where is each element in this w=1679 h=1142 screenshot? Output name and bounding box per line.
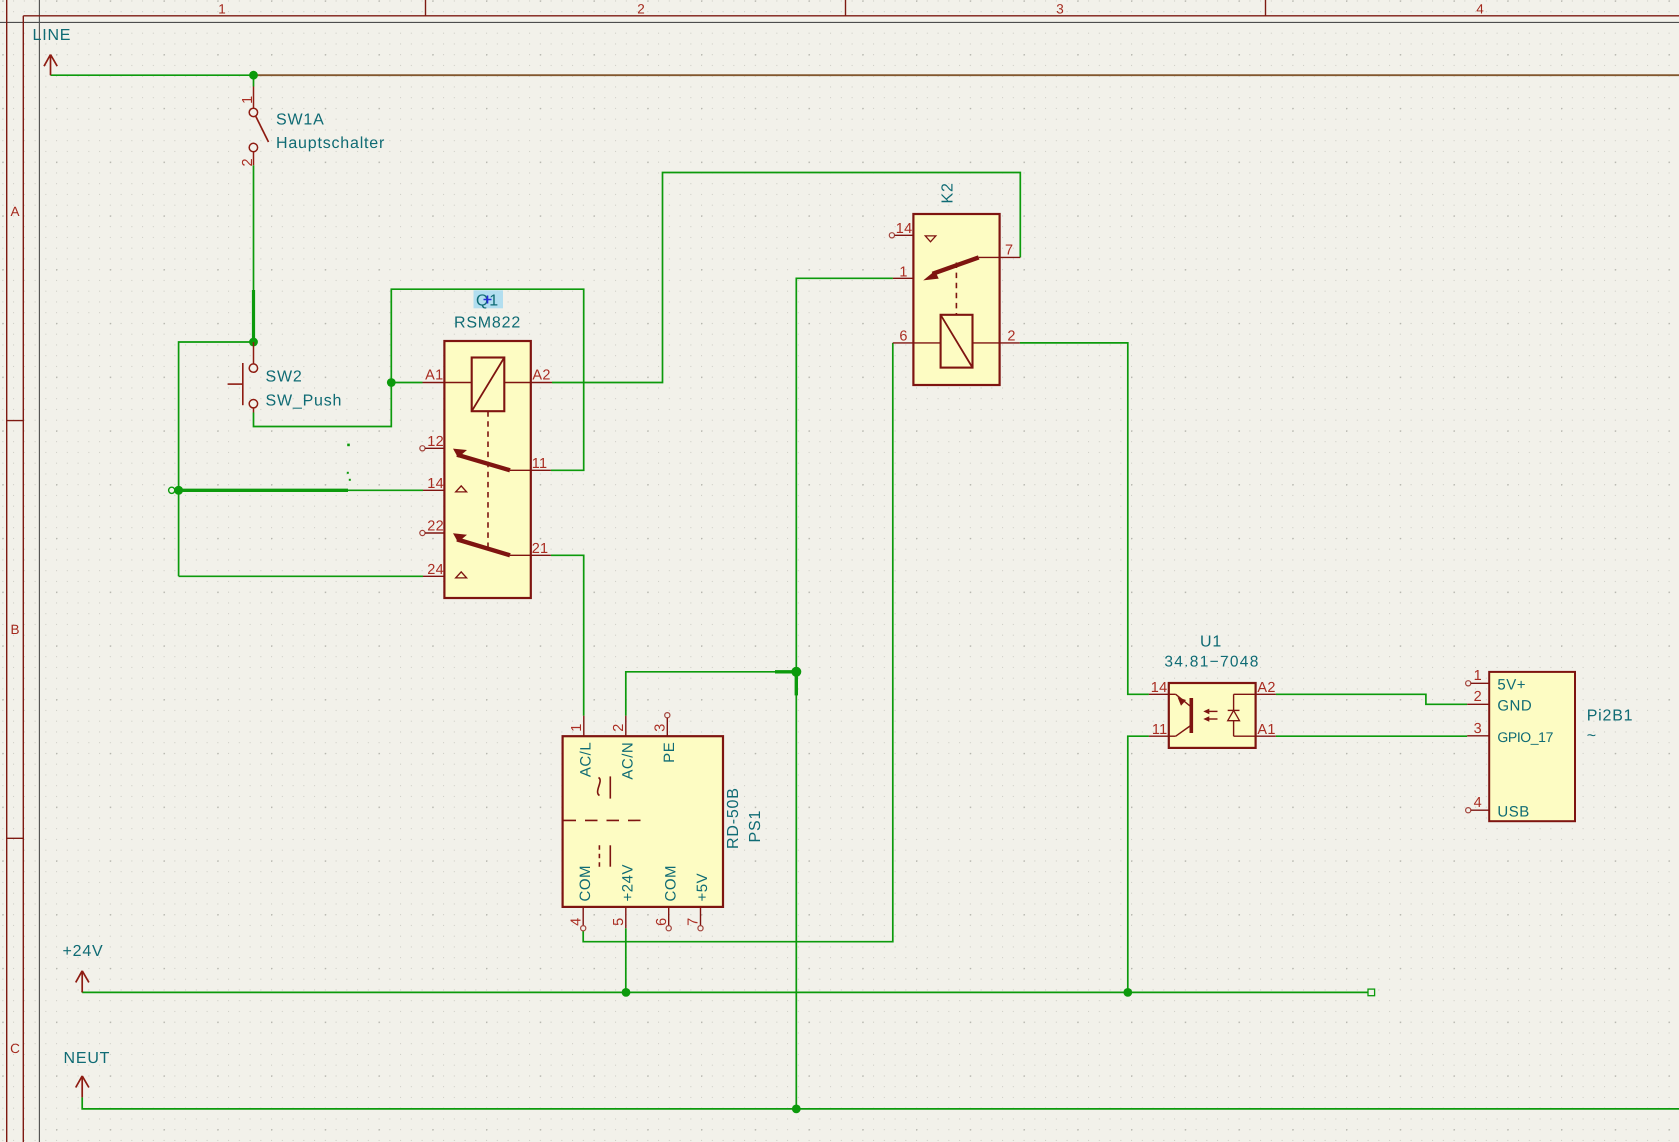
pin 5 PS1 bbox=[625, 907, 627, 928]
dashed link K2 bbox=[955, 263, 957, 315]
wire junction left and down left rail bbox=[179, 342, 254, 576]
svg-text:A1: A1 bbox=[1257, 722, 1275, 738]
svg-text:14: 14 bbox=[896, 221, 913, 237]
svg-text:U1: U1 bbox=[1200, 634, 1222, 651]
wire LINE net from power arrow to junction bbox=[51, 74, 254, 76]
svg-text:3: 3 bbox=[1474, 721, 1482, 737]
column label 1 bbox=[218, 2, 226, 17]
pin 4 PS1 bbox=[582, 907, 584, 926]
svg-text:+5V: +5V bbox=[694, 873, 711, 902]
switch SW2 SW_Push bbox=[228, 342, 343, 413]
junction K1 net at x796 bbox=[791, 667, 801, 677]
pin 6 K2 bbox=[893, 342, 914, 344]
pin 2 PS1 bbox=[625, 716, 627, 737]
svg-text:12: 12 bbox=[427, 434, 444, 450]
column label 2 bbox=[637, 2, 645, 17]
wire to Q1 pin 24 bbox=[179, 575, 423, 577]
wire PS1 pin 2 up to junction bbox=[626, 672, 797, 716]
pin 3 Pi2B1 bbox=[1467, 735, 1489, 737]
pin 14 bbox=[423, 489, 444, 491]
pin 14 K2 bbox=[889, 233, 894, 238]
svg-text:7: 7 bbox=[686, 918, 702, 926]
svg-text:PS1: PS1 bbox=[747, 810, 764, 843]
row label B bbox=[10, 622, 19, 637]
wire junction to A1 pin bbox=[391, 382, 422, 384]
optocoupler U1 34.81-7048 bbox=[1149, 634, 1276, 748]
row label C bbox=[10, 1041, 20, 1056]
power port NEUT bbox=[64, 1050, 111, 1097]
pin 1 K2 bbox=[893, 277, 914, 279]
DC symbol PS1 bbox=[609, 845, 611, 866]
power port LINE bbox=[33, 27, 72, 75]
wire NEUT rail bbox=[82, 1097, 1679, 1109]
power port +24V bbox=[63, 943, 104, 992]
column tick 3|4 bbox=[1265, 0, 1267, 16]
svg-text:RD-50B: RD-50B bbox=[725, 787, 742, 849]
svg-text:4: 4 bbox=[1474, 795, 1482, 811]
border frame outer bbox=[6, 0, 8, 1142]
svg-text:5V+: 5V+ bbox=[1497, 677, 1526, 694]
svg-text:GPIO_17: GPIO_17 bbox=[1497, 729, 1553, 745]
wire Q1 A2 up over to K2 pin 7 bbox=[552, 173, 1020, 383]
svg-text:4: 4 bbox=[1476, 2, 1484, 17]
connector Pi2B1 bbox=[1466, 668, 1634, 821]
row label A bbox=[10, 204, 19, 219]
wire U1 A2 to Pi2B1 GND bbox=[1276, 694, 1467, 704]
coil Q1 bbox=[472, 358, 505, 412]
pin 14 U1 bbox=[1149, 693, 1169, 695]
junction +24V at PS1 pin 5 bbox=[622, 988, 631, 997]
pin 1 PS1 bbox=[583, 716, 585, 737]
wire Q1 top bracket A1 junction to pin 11 bbox=[391, 289, 583, 470]
svg-text:1: 1 bbox=[1474, 668, 1482, 684]
pin A1 U1 bbox=[1256, 735, 1276, 737]
column tick 2|3 bbox=[845, 0, 847, 16]
column label 4 bbox=[1476, 2, 1484, 17]
junction SW2 top bbox=[249, 338, 258, 347]
svg-text:2: 2 bbox=[1007, 329, 1015, 345]
svg-text:LINE: LINE bbox=[33, 27, 72, 44]
power supply PS1 RD-50B bbox=[563, 713, 764, 931]
svg-text:14: 14 bbox=[1151, 680, 1168, 696]
relay Q1 RSM822 bbox=[420, 290, 552, 598]
svg-text:A: A bbox=[10, 204, 19, 219]
svg-text:B: B bbox=[10, 622, 19, 637]
wire K2 pin 1 left and down to NEUT bbox=[775, 278, 893, 1109]
sheet origin axis horizontal bbox=[0, 21, 1679, 23]
svg-text:+24V: +24V bbox=[63, 943, 104, 960]
svg-text:AC/N: AC/N bbox=[620, 742, 637, 780]
svg-text:A1: A1 bbox=[425, 367, 443, 383]
wire K2 pin 6 down around to PS1 pin 4 bbox=[583, 343, 893, 942]
column tick 1|2 bbox=[425, 0, 427, 16]
svg-text:3: 3 bbox=[1056, 2, 1064, 17]
svg-text:6: 6 bbox=[899, 329, 907, 345]
pin 22 bbox=[420, 530, 425, 535]
svg-text:21: 21 bbox=[532, 541, 549, 557]
svg-text:2: 2 bbox=[1474, 689, 1482, 705]
row tick A|B bbox=[7, 420, 24, 422]
pin A1 bbox=[423, 382, 445, 384]
svg-text:SW_Push: SW_Push bbox=[266, 393, 343, 410]
contact lever 22-21 bbox=[453, 533, 467, 542]
svg-text:SW1A: SW1A bbox=[276, 112, 325, 129]
svg-text:A2: A2 bbox=[1257, 680, 1275, 696]
light arrows U1 bbox=[1207, 710, 1218, 712]
svg-text:5: 5 bbox=[611, 918, 627, 926]
svg-text:2: 2 bbox=[637, 2, 645, 17]
svg-text:6: 6 bbox=[654, 918, 670, 926]
svg-text:USB: USB bbox=[1497, 804, 1529, 821]
diode U1 bbox=[1233, 694, 1235, 710]
pin 24 bbox=[423, 575, 444, 577]
svg-text:2: 2 bbox=[240, 158, 256, 166]
pin 2 Pi2B1 bbox=[1467, 703, 1489, 705]
wire K2 pin 2 to U1 pin 14 bbox=[1020, 343, 1149, 694]
svg-text:SW2: SW2 bbox=[266, 369, 303, 386]
wire LINE net brown continuation to right edge bbox=[254, 74, 1679, 76]
pin A2 U1 bbox=[1256, 693, 1276, 695]
divider dashes PS1 bbox=[564, 819, 646, 821]
wire SW1A pin1 to switch bbox=[253, 75, 255, 86]
svg-text:Hauptschalter: Hauptschalter bbox=[276, 135, 385, 152]
svg-text:Pi2B1: Pi2B1 bbox=[1587, 708, 1634, 725]
unconnected end square +24V bbox=[1368, 989, 1375, 996]
pin 6 PS1 bbox=[668, 907, 670, 926]
row tick B|C bbox=[7, 837, 24, 839]
contact lever 12-11 bbox=[453, 449, 467, 458]
svg-text:11: 11 bbox=[532, 456, 548, 472]
pin 12 bbox=[420, 446, 425, 451]
svg-text:C: C bbox=[10, 1041, 20, 1056]
svg-text:7: 7 bbox=[1005, 243, 1013, 259]
contact lever K2 bbox=[923, 271, 939, 281]
svg-text:24: 24 bbox=[427, 562, 444, 578]
wire U1 pin 11 down to +24V rail bbox=[1128, 736, 1149, 992]
svg-text:4: 4 bbox=[568, 918, 584, 926]
junction Q1 A1 bbox=[387, 378, 396, 387]
pin 1 Pi2B1 bbox=[1466, 681, 1471, 686]
coil K2 bbox=[941, 315, 973, 368]
svg-text:11: 11 bbox=[1152, 722, 1168, 738]
svg-text:1: 1 bbox=[240, 96, 256, 104]
junction left rail at pin14 wire bbox=[169, 486, 184, 495]
wire to Q1 pin 14 (selected thick part) bbox=[179, 489, 423, 492]
pin 11 U1 bbox=[1149, 735, 1169, 737]
relay K2 bbox=[889, 182, 1020, 385]
wire Q1 pin 21 down to PS1 pin 1 bbox=[551, 555, 584, 715]
wire U1 A1 to Pi2B1 GPIO_17 bbox=[1276, 735, 1467, 737]
pin 11 bbox=[510, 469, 531, 471]
svg-text:GND: GND bbox=[1497, 698, 1532, 715]
dashed link Q1 bbox=[487, 411, 489, 547]
pin A2 bbox=[531, 382, 552, 384]
junction +24V at x1127.8 bbox=[1123, 988, 1132, 997]
pin 21 bbox=[510, 554, 531, 556]
svg-text:COM: COM bbox=[662, 865, 679, 902]
pin 3 PS1 bbox=[665, 713, 670, 718]
sheet origin axis vertical bbox=[38, 0, 40, 1142]
svg-text:COM: COM bbox=[577, 865, 594, 902]
svg-text:1: 1 bbox=[569, 723, 585, 731]
svg-text:2: 2 bbox=[611, 723, 627, 731]
svg-text:1: 1 bbox=[899, 265, 907, 281]
svg-text:NEUT: NEUT bbox=[64, 1050, 111, 1067]
pin 4 Pi2B1 bbox=[1466, 808, 1471, 813]
column label 3 bbox=[1056, 2, 1064, 17]
pin 2 K2 bbox=[973, 342, 1000, 344]
svg-text:A2: A2 bbox=[532, 367, 550, 383]
stray selection marks bbox=[347, 444, 351, 481]
svg-text:PE: PE bbox=[661, 742, 678, 763]
svg-text:22: 22 bbox=[427, 519, 444, 535]
AC symbol PS1 bbox=[598, 778, 601, 796]
svg-text:RSM822: RSM822 bbox=[454, 315, 521, 332]
wire SW2 pin2 to A1 junction bbox=[254, 383, 392, 427]
svg-text:AC/L: AC/L bbox=[578, 742, 595, 777]
wire SW1A pin2 down to SW2 junction bbox=[253, 165, 255, 342]
wire +24V rail bbox=[82, 991, 1368, 992]
svg-text:K2: K2 bbox=[940, 182, 957, 203]
switch SW1A Hauptschalter bbox=[240, 87, 385, 167]
svg-text:14: 14 bbox=[427, 476, 444, 492]
phototransistor U1 bbox=[1190, 698, 1194, 733]
junction NEUT rail bbox=[792, 1105, 801, 1114]
svg-text:3: 3 bbox=[653, 723, 669, 731]
junction LINE at SW1A pin1 bbox=[249, 71, 258, 80]
svg-text:~: ~ bbox=[1587, 728, 1597, 745]
svg-text:34.81−7048: 34.81−7048 bbox=[1164, 654, 1259, 671]
pin 7 K2 bbox=[979, 256, 1000, 258]
wire PS1 pin 5 down to +24V rail bbox=[625, 928, 627, 992]
svg-text:1: 1 bbox=[218, 2, 226, 17]
svg-text:+24V: +24V bbox=[620, 864, 637, 901]
pin 7 PS1 bbox=[700, 907, 702, 926]
